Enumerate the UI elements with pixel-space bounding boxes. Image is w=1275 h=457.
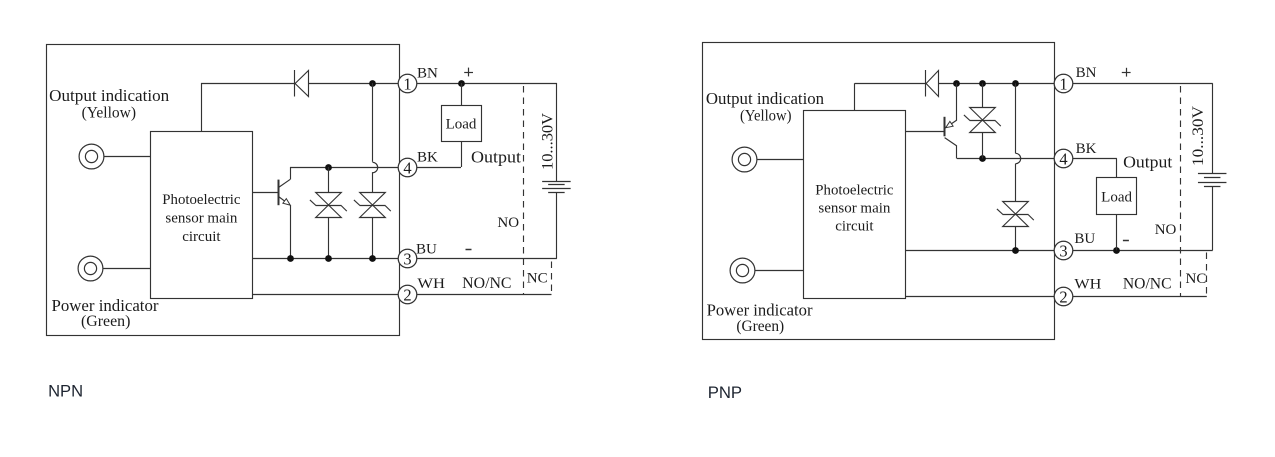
svg-text:BK: BK [417,150,438,166]
svg-text:Photoelectric: Photoelectric [815,182,894,198]
svg-text:Power indicator: Power indicator [707,300,813,319]
svg-text:Output indication: Output indication [706,89,825,108]
svg-text:NO: NO [497,215,519,231]
svg-text:Photoelectric: Photoelectric [162,192,241,208]
svg-text:(Green): (Green) [81,313,130,330]
svg-text:Output indication: Output indication [49,86,169,105]
svg-text:10...30V: 10...30V [540,113,557,170]
svg-text:NPN: NPN [48,382,83,401]
svg-text:NO/NC: NO/NC [1123,275,1172,292]
svg-text:(Green): (Green) [736,318,784,335]
svg-text:1: 1 [1059,74,1067,93]
svg-text:2: 2 [1059,287,1067,306]
svg-text:4: 4 [403,158,411,177]
svg-text:NO: NO [1155,222,1177,238]
svg-text:NC: NC [1186,271,1207,287]
svg-text:WH: WH [1074,276,1101,292]
svg-text:3: 3 [1059,241,1067,260]
svg-text:10...30V: 10...30V [1190,106,1207,166]
svg-text:(Yellow): (Yellow) [740,108,792,125]
svg-text:circuit: circuit [182,229,221,245]
svg-text:3: 3 [403,249,411,268]
svg-text:(Yellow): (Yellow) [82,105,136,122]
svg-text:NO/NC: NO/NC [462,275,511,292]
svg-text:WH: WH [417,276,445,292]
svg-text:BN: BN [417,66,438,82]
svg-text:BU: BU [416,242,437,258]
svg-text:BU: BU [1074,231,1095,247]
svg-text:Load: Load [446,116,477,132]
svg-text:Output: Output [471,148,521,167]
svg-text:1: 1 [403,74,411,93]
svg-text:PNP: PNP [708,383,742,402]
svg-text:sensor main: sensor main [818,200,891,216]
svg-text:Output: Output [1123,153,1172,172]
svg-text:4: 4 [1059,149,1067,168]
svg-text:circuit: circuit [835,218,874,234]
svg-text:BN: BN [1076,65,1097,81]
svg-text:BK: BK [1076,141,1097,157]
svg-text:Load: Load [1101,190,1132,206]
svg-text:NC: NC [527,271,548,287]
svg-text:2: 2 [403,285,411,304]
svg-text:sensor main: sensor main [165,211,238,227]
